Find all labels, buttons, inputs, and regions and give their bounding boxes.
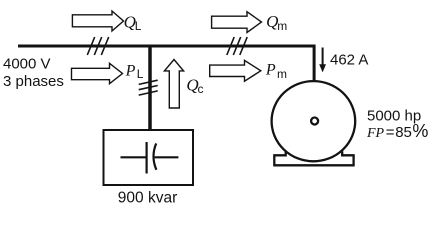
block arrow Qc (up) [164, 60, 183, 109]
wire: 4000 V bus with corner drop to motor [18, 46, 314, 82]
svg-text:%: % [412, 121, 428, 141]
block arrow Qm [212, 12, 262, 33]
motor M circle [272, 81, 356, 161]
svg-text:3 phases: 3 phases [3, 73, 64, 90]
3-phase slashes on capacitor feeder [139, 80, 158, 95]
svg-text:L: L [137, 67, 144, 81]
capacitor C: left lead [121, 156, 147, 158]
svg-text:85: 85 [395, 124, 412, 141]
capacitor bank box [104, 130, 194, 185]
svg-text:P: P [265, 62, 276, 79]
current arrow 462 A [322, 48, 324, 67]
svg-text:4000 V: 4000 V [3, 55, 51, 72]
block arrow QL [72, 11, 123, 31]
motor pedestal base [273, 151, 355, 165]
svg-text:900 kvar: 900 kvar [118, 189, 177, 206]
svg-text:FP: FP [366, 126, 385, 141]
block arrow PL [72, 63, 123, 83]
block arrow Pm [210, 60, 261, 81]
wire: feeder from bus down to capacitor bank [148, 46, 152, 131]
svg-text:=: = [386, 124, 395, 141]
capacitor C: right lead [155, 156, 179, 158]
svg-text:m: m [277, 67, 287, 81]
svg-text:L: L [135, 19, 142, 33]
svg-text:m: m [277, 19, 287, 33]
motor shaft small circle [311, 118, 318, 125]
svg-text:c: c [198, 82, 204, 96]
svg-text:462 A: 462 A [330, 51, 368, 68]
3-phase slashes on bus (left group) [87, 37, 108, 55]
3-phase slashes on bus (right group) [227, 37, 247, 55]
capacitor C: straight plate [146, 142, 148, 174]
svg-text:P: P [125, 63, 136, 80]
capacitor C: curved plate [153, 143, 156, 169]
